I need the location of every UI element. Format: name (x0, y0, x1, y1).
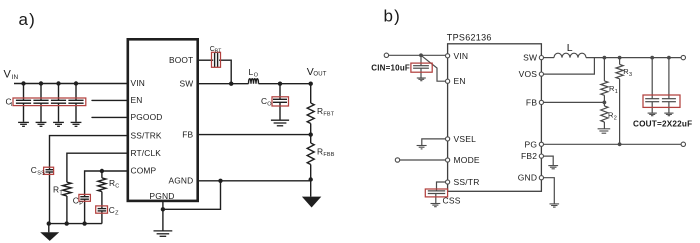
svg-text:SS: SS (37, 171, 45, 177)
svg-text:R: R (53, 185, 59, 195)
svg-text:C: C (261, 96, 267, 106)
svg-text:VSEL: VSEL (454, 134, 477, 144)
svg-text:IN: IN (12, 74, 19, 81)
svg-text:P: P (79, 201, 83, 207)
svg-text:C: C (31, 165, 37, 175)
svg-text:BOOT: BOOT (169, 55, 193, 65)
svg-text:R: R (109, 178, 115, 188)
svg-text:FBB: FBB (323, 152, 334, 158)
svg-text:FB: FB (526, 97, 537, 107)
svg-text:C: C (115, 183, 119, 189)
svg-text:CSS: CSS (443, 196, 461, 206)
svg-text:COMP: COMP (131, 166, 157, 176)
svg-text:C: C (109, 205, 115, 215)
svg-text:C: C (73, 196, 79, 206)
svg-text:SS/TRK: SS/TRK (131, 130, 162, 140)
svg-text:FB: FB (182, 129, 193, 139)
svg-text:RT/CLK: RT/CLK (131, 148, 162, 158)
svg-text:L: L (567, 42, 573, 54)
svg-text:AGND: AGND (169, 176, 194, 186)
svg-text:SW: SW (180, 78, 194, 88)
svg-text:FBT: FBT (323, 111, 334, 117)
svg-text:1: 1 (615, 89, 618, 95)
svg-text:a): a) (19, 10, 37, 29)
svg-text:EN: EN (454, 76, 466, 86)
svg-text:3: 3 (629, 72, 632, 78)
svg-text:EN: EN (131, 95, 143, 105)
svg-text:T: T (59, 190, 63, 196)
svg-text:SW: SW (523, 53, 537, 63)
svg-text:O: O (254, 73, 259, 79)
svg-text:MODE: MODE (454, 155, 480, 165)
svg-text:TPS62136: TPS62136 (447, 32, 492, 42)
svg-text:V: V (4, 69, 12, 81)
svg-text:BT: BT (215, 48, 222, 54)
svg-text:R: R (317, 106, 323, 116)
svg-text:GND: GND (518, 173, 538, 183)
svg-text:CIN=10uF: CIN=10uF (371, 64, 410, 73)
svg-text:VOS: VOS (519, 69, 538, 79)
svg-text:COUT=2X22uF: COUT=2X22uF (633, 120, 692, 129)
svg-text:VIN: VIN (454, 51, 469, 61)
svg-text:SS/TR: SS/TR (454, 177, 480, 187)
svg-text:b): b) (384, 7, 402, 26)
svg-text:PG: PG (525, 139, 538, 149)
svg-text:R: R (317, 146, 323, 156)
svg-text:O: O (267, 102, 272, 108)
svg-text:FB2: FB2 (521, 151, 537, 161)
svg-text:OUT: OUT (313, 71, 326, 77)
svg-text:PGND: PGND (149, 191, 174, 201)
svg-text:Z: Z (115, 210, 119, 216)
svg-text:PGOOD: PGOOD (131, 112, 163, 122)
svg-text:2: 2 (614, 116, 617, 122)
svg-text:VIN: VIN (131, 78, 145, 88)
